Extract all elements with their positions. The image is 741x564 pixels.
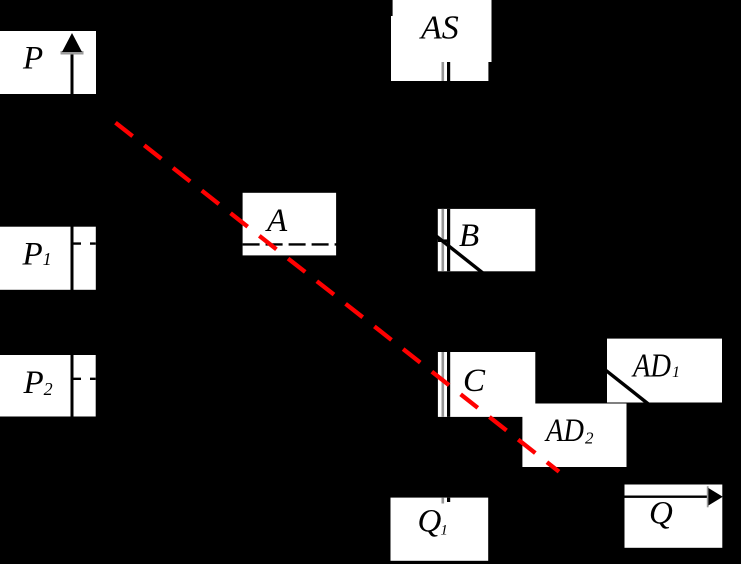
Q axis arrowhead	[708, 488, 722, 506]
P axis arrowhead	[62, 33, 82, 52]
svg-text:AS: AS	[419, 9, 459, 46]
dashed price line P1: fragment in P1 box	[73, 242, 96, 244]
label box B	[438, 209, 536, 271]
svg-text:P: P	[22, 40, 43, 76]
label box P	[0, 31, 96, 94]
dashed price line P1: main run through A box	[243, 243, 430, 245]
label box Q1	[391, 498, 489, 561]
label box C	[438, 352, 535, 417]
red dashed AD shift line	[116, 123, 560, 472]
AD1 curve	[433, 234, 649, 405]
label box AD1	[607, 339, 722, 403]
dashed price line P1: fragment at point B	[438, 239, 448, 242]
AS line black	[447, 62, 450, 502]
Q axis arrow flare	[707, 486, 709, 507]
svg-text:B: B	[459, 218, 479, 254]
svg-text:C: C	[463, 363, 486, 399]
label box AD2	[522, 404, 626, 468]
label box AS	[391, 0, 492, 81]
label box P2	[0, 355, 96, 417]
dashed price line P2	[73, 378, 96, 380]
Q axis line	[625, 496, 710, 498]
svg-text:A: A	[265, 203, 288, 239]
AS line grey	[442, 62, 445, 504]
P axis arrow flare	[61, 51, 84, 55]
label box Q	[625, 485, 723, 548]
label box A	[243, 193, 337, 256]
label box P1	[0, 227, 96, 290]
P axis line	[71, 49, 74, 560]
svg-text:Q: Q	[649, 495, 673, 531]
